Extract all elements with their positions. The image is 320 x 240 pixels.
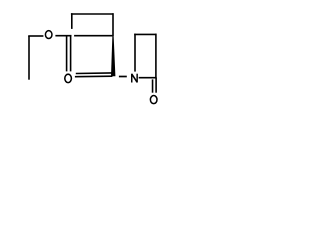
bond C-N	[119, 76, 127, 78]
bond cyclobutane bottom edge	[74, 35, 112, 37]
bond wedge stereo	[111, 36, 115, 76]
bond N-C(O) bottom edge	[139, 77, 157, 79]
bond C=O2 double line left	[66, 35, 68, 71]
bond O1-C horizontal	[55, 35, 71, 37]
atom O3 lactam oxygen	[150, 96, 157, 104]
bond ethyl CH3-CH2 vertical	[28, 36, 30, 80]
bond azetidinone right edge	[155, 34, 157, 79]
bond cyclobutane right edge	[112, 13, 114, 36]
bond amide C=O double line upper	[76, 72, 113, 75]
bond cyclobutane top edge	[71, 13, 114, 15]
bond amide C=O double line lower	[75, 75, 113, 78]
atom N ring nitrogen	[132, 74, 137, 83]
bond azetidinone left edge	[134, 34, 136, 72]
bond ring C=O3 double line inner	[152, 79, 154, 92]
bond C=O2 double line right	[70, 36, 72, 71]
atom O1 ester oxygen	[45, 31, 52, 39]
bond ring C=O3 double line main	[155, 78, 157, 93]
bond azetidinone top edge	[134, 33, 156, 35]
bond cyclobutane left edge	[71, 13, 73, 29]
atom O2 ester carbonyl oxygen	[65, 74, 72, 82]
bond CH2-O1 horizontal	[28, 35, 43, 37]
